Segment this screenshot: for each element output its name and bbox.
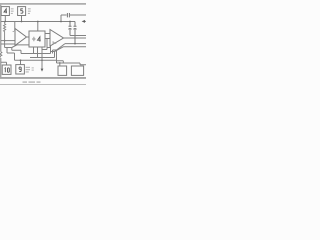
wire diagonal to divider input bbox=[12, 45, 30, 48]
top frame border bbox=[0, 3, 86, 5]
wire pin9 stub bbox=[20, 60, 22, 64]
wire diagonal B bbox=[55, 47, 87, 52]
node junction pin5-bus bbox=[21, 21, 23, 23]
pin box 10 bbox=[2, 65, 11, 74]
op-amp U1 input stub bbox=[14, 22, 16, 32]
op-amp U1 input marks bbox=[13, 30, 14, 32]
node junction pin9 bbox=[20, 59, 22, 61]
caption line below frame bbox=[0, 83, 86, 86]
wire y35.5 bbox=[70, 35, 86, 37]
node junction divider-bus bbox=[37, 21, 39, 23]
resistor R2 hanging from bus bbox=[3, 22, 5, 45]
wire boxA stub bbox=[59, 63, 61, 66]
digit 5 bbox=[21, 9, 23, 13]
pin box B bbox=[71, 66, 83, 75]
hysteresis mark U2 bbox=[53, 42, 56, 44]
wire y44 bbox=[1, 43, 15, 45]
wire corner cluster bbox=[47, 46, 57, 58]
pin label text 9 bbox=[26, 67, 34, 73]
wire staircase inner bbox=[12, 48, 51, 54]
wire y40.6 to opamp bbox=[1, 40, 15, 42]
digit 4 bbox=[4, 9, 7, 13]
op-amp U2 bbox=[50, 30, 64, 47]
wire pin5 stub bbox=[21, 16, 23, 22]
pin label text 5 bbox=[28, 8, 31, 14]
left frame wire bbox=[0, 5, 2, 77]
wire y63 to bottom pins bbox=[57, 50, 87, 65]
wire divider to U2 bbox=[45, 34, 50, 39]
node junction resistor y40.6 bbox=[4, 40, 6, 42]
node junction pin4-bus bbox=[4, 21, 6, 23]
caption text smudge bbox=[23, 81, 41, 83]
op-amp U1 bbox=[15, 29, 27, 46]
pin box A bbox=[58, 66, 67, 75]
capacitor C1 series bbox=[67, 13, 69, 17]
divider bottom stubs bbox=[34, 47, 38, 58]
pin box 9 bbox=[16, 65, 25, 74]
arrow down bbox=[41, 69, 44, 72]
divider stub top bbox=[37, 22, 39, 32]
wire y60.3 staircase bottom bbox=[15, 59, 57, 61]
divider box /4 bbox=[29, 31, 45, 47]
wire diagonal A bbox=[57, 44, 87, 50]
capacitor C2 shunt bbox=[68, 22, 71, 36]
divider label "/4" bbox=[32, 37, 40, 42]
node junction loop-bus bbox=[60, 21, 62, 23]
digits 10 bbox=[5, 68, 10, 72]
wire y47.5 branch bbox=[5, 44, 12, 48]
node junction x42 y60.3 bbox=[41, 60, 43, 62]
wire pin4 stub bbox=[4, 16, 6, 22]
wire pin10 connect bbox=[1, 62, 7, 65]
wire U1 output bbox=[27, 36, 30, 38]
wire bus y21.5 bbox=[1, 21, 75, 23]
wire U2 output bbox=[64, 37, 87, 39]
wire feedback cap loop up bbox=[61, 15, 86, 22]
capacitor C3 shunt bbox=[73, 22, 76, 44]
digit 9 bbox=[19, 67, 21, 72]
node junction boxA bbox=[59, 62, 61, 64]
bottom frame border bbox=[0, 77, 86, 79]
pin box 4 bbox=[1, 7, 9, 16]
node junction c2-bus bbox=[69, 21, 71, 23]
node junction x75 y43.5 bbox=[74, 43, 76, 45]
wire arrow branch bbox=[42, 39, 47, 70]
wire staircase outer bbox=[7, 48, 15, 61]
pin label text 4 bbox=[11, 8, 14, 14]
pin box 5 bbox=[18, 7, 26, 16]
arrow into frame right bbox=[85, 20, 87, 22]
wire y57.5 bbox=[30, 57, 55, 59]
wire jog above box A bbox=[57, 61, 64, 63]
resistor R left border bbox=[0, 52, 2, 57]
